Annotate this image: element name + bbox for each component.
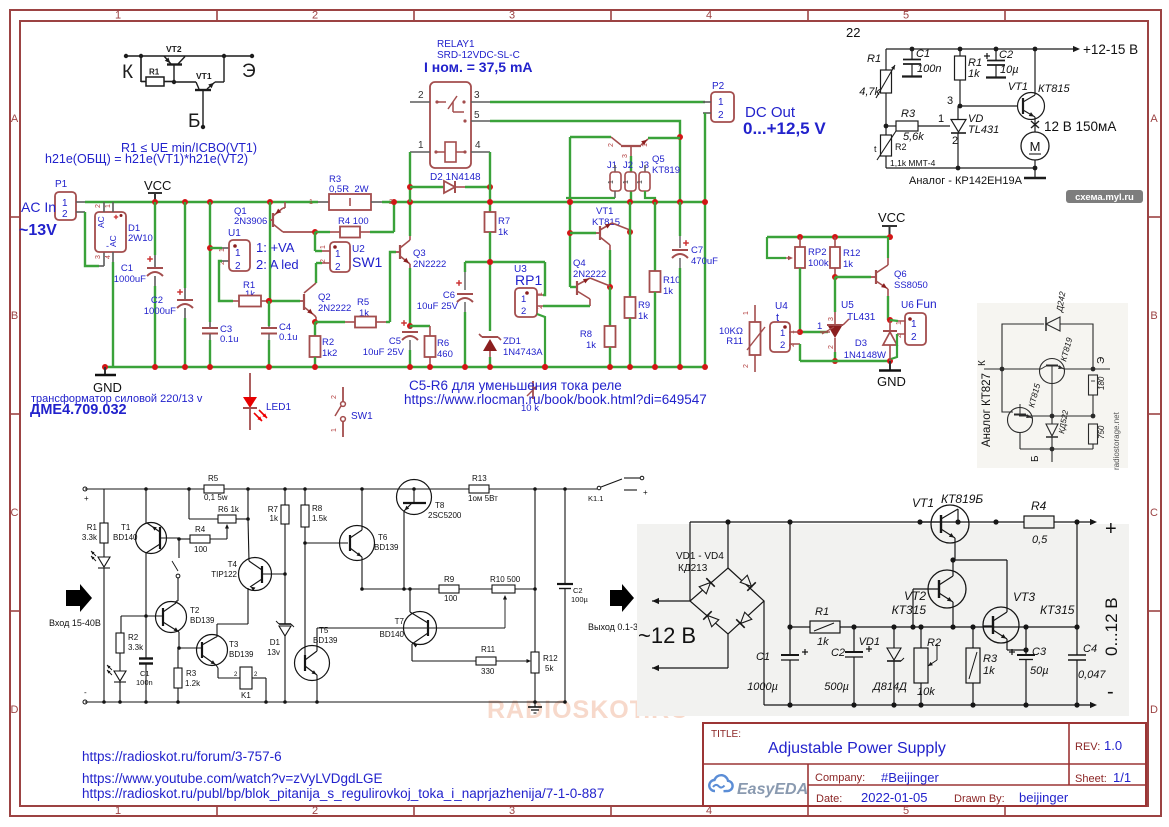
svg-text:500µ: 500µ [824,681,849,693]
svg-text:R9: R9 [444,575,455,584]
svg-text:TITLE:: TITLE: [711,729,741,740]
wire relay pin4 down / R7 column [489,152,491,187]
svg-text:22: 22 [846,25,860,40]
wire fan top rail [767,236,890,238]
svg-text:Э: Э [242,61,256,82]
svg-text:T5: T5 [319,626,329,635]
svg-text:TIP122: TIP122 [211,570,237,579]
svg-text:VT1: VT1 [912,496,934,510]
resistor R2 3.3k [120,616,122,633]
svg-text:P2: P2 [712,81,725,92]
switch K1.1 [597,486,601,490]
wire top rail PSU [689,522,691,601]
bottom-right PSU inset [637,524,1129,716]
svg-text:КТ815: КТ815 [1038,83,1070,95]
svg-text:R4: R4 [195,525,206,534]
svg-text:https://radioskot.ru/forum/3-7: https://radioskot.ru/forum/3-757-6 [82,749,282,764]
resistor R12 1k [834,237,836,247]
svg-text:5: 5 [903,10,909,22]
thermistor R2 1,1k MMT-4 [885,126,887,135]
wire bottom line [1020,448,1093,450]
svg-text:2: 2 [235,261,241,272]
svg-text:M: M [1030,139,1041,154]
svg-text:2SC5200: 2SC5200 [428,511,462,520]
svg-text:4: 4 [475,140,481,151]
svg-text:Q6: Q6 [894,269,907,280]
wire Q4 collector to RP1 pin2 [543,305,590,307]
svg-text:12 В 150мА: 12 В 150мА [1044,119,1116,134]
wire column x=210 (C3/U1) [207,199,213,205]
svg-text:1: 1 [418,140,424,151]
svg-text:100n: 100n [917,63,941,75]
wire fan gnd line [800,360,890,362]
svg-text:A: A [11,113,19,125]
svg-text:Date:: Date: [816,793,842,805]
svg-text:GND: GND [877,374,906,389]
svg-text:Аналог - КР142ЕН19А: Аналог - КР142ЕН19А [909,175,1023,187]
svg-text:750: 750 [1097,425,1106,439]
svg-text:VCC: VCC [878,210,905,225]
wire regulator top rail [886,48,1073,50]
resistor 180 [1089,375,1098,395]
svg-text:2: 2 [608,143,615,147]
svg-text:#Beijinger: #Beijinger [881,770,939,785]
wire U5 ref line [800,331,828,333]
resistor R10 1k [654,202,656,271]
svg-text:0,5: 0,5 [1032,534,1048,546]
svg-text:SS8050: SS8050 [894,280,928,291]
relay contact symbol [435,100,438,103]
wire K branch [140,56,142,82]
svg-text:Adjustable Power Supply: Adjustable Power Supply [768,740,946,757]
svg-text:2N2222: 2N2222 [318,303,351,314]
svg-text:1: 1 [780,328,785,339]
svg-text:+: + [643,488,648,497]
resistor R4 100 [179,538,190,540]
resistor R3 1.2k [177,648,179,668]
wire VT1 base stem to B [202,90,204,126]
wire R4 right up to rail [393,202,395,232]
svg-text:R1: R1 [87,523,98,532]
svg-text:2W10: 2W10 [128,233,153,244]
resistor R11 330 [412,660,476,662]
wire bottom rail PSU [763,601,765,705]
svg-text:3: 3 [509,805,515,817]
zener VD1 D814D [891,624,896,629]
ground symbol [534,702,536,707]
wire T7 base to R10 wiper [428,627,505,629]
svg-text:-: - [106,241,109,251]
svg-text:https://radioskot.ru/publ/bp/b: https://radioskot.ru/publ/bp/blok_pitani… [82,786,604,801]
svg-text:2: 2 [62,209,68,220]
svg-text:2: 2 [312,805,318,817]
svg-text:U4: U4 [775,301,788,312]
capacitor C2 500u [851,624,856,629]
svg-text:SW1: SW1 [351,411,373,422]
svg-text:1k: 1k [843,259,853,270]
svg-text:1: 1 [62,198,68,209]
svg-text:1k2: 1k2 [322,348,337,359]
svg-text:R8: R8 [312,504,323,513]
EasyEDA logo [709,775,732,791]
diode KD522 [1051,416,1053,424]
X mark [1031,121,1039,128]
switch contact [178,539,180,558]
resistor R6 1k [188,489,190,519]
svg-text:VT1: VT1 [1008,81,1028,93]
svg-text:R2: R2 [322,337,334,348]
wire VCC rail y=202 [85,201,318,203]
svg-text:3.3k: 3.3k [128,643,144,652]
svg-text:BD139: BD139 [190,616,215,625]
wire R9 line [362,588,439,590]
wire x=316 column from R4 node [314,232,316,251]
wire Q5 base down through J2 [630,147,632,156]
resistor R2 1k2 [314,322,316,336]
KT827 analog inset image [977,303,1128,468]
svg-text:C1: C1 [916,48,930,60]
svg-text:C7: C7 [691,245,703,256]
svg-text:100k: 100k [808,258,829,269]
svg-text:VT1: VT1 [596,206,613,217]
svg-text:3.3k: 3.3k [82,533,98,542]
svg-text:2: 2 [389,199,393,206]
svg-text:2: 2 [95,204,102,208]
svg-text:460: 460 [437,349,453,360]
photodiode optocoupler 2 [114,671,126,681]
svg-text:2: 2 [418,90,424,101]
capacitor C6 10uF 25V [464,262,466,272]
ground flag GND [102,364,108,370]
svg-text:схема.myl.ru: схема.myl.ru [1075,192,1134,203]
svg-text:VD1: VD1 [859,636,880,648]
transistor T2 BD139 [156,602,187,633]
svg-text:100: 100 [194,545,208,554]
svg-text:T7: T7 [395,617,405,626]
node E [1091,367,1096,372]
svg-text:2: 2 [743,364,750,368]
svg-text:REV:: REV: [1075,741,1100,753]
svg-text:1k: 1k [270,514,279,523]
wire U4 pin2 to gnd line [790,343,800,345]
watermark schema.myl.ru [1066,190,1143,203]
svg-text:R3: R3 [983,653,998,665]
svg-text:1: 1 [115,10,121,22]
connector U1 [207,245,213,251]
svg-text:2: A led: 2: A led [256,257,299,272]
svg-text:5k: 5k [545,664,554,673]
svg-text:radiostorage.net: radiostorage.net [1112,411,1121,470]
svg-text:R12: R12 [843,248,860,259]
svg-text:SW1: SW1 [352,254,383,270]
svg-text:2: 2 [780,340,785,351]
svg-text:R1: R1 [867,53,881,65]
svg-text:A: A [1150,113,1158,125]
photodiode optocoupler 1 [98,557,110,567]
resistor R10 500 [492,585,515,593]
capacitor C3 0.1u [209,322,211,327]
resistor R7 1k [284,489,286,505]
resistor R12 5k [534,489,536,589]
svg-text:C2: C2 [573,586,583,595]
wire mid line [1019,415,1093,417]
capacitor C7 470uF [679,202,681,236]
svg-text:10µ: 10µ [1000,64,1019,76]
svg-text:К: К [977,360,988,366]
svg-text:VT2: VT2 [166,44,182,54]
transistor T3 BD139 [197,635,228,666]
svg-text:1k: 1k [968,68,980,80]
svg-text:U1: U1 [228,228,241,239]
svg-text:Д814Д: Д814Д [871,681,907,693]
wire x=570 column [569,137,571,287]
wire relay pin3 to P2 pin1 [490,101,705,103]
wire T4 base to D1 column [262,573,285,575]
wire T2 emitter to T3 base [177,646,181,650]
svg-text:Sheet:: Sheet: [1075,773,1107,785]
svg-text:P1: P1 [55,179,68,190]
svg-text:50µ: 50µ [1030,665,1049,677]
ground (regulator) [1034,168,1036,178]
svg-text:+: + [84,494,89,503]
capacitor C4 0.1u [266,298,272,304]
wire Q6 collector [887,237,889,258]
transistor T6 BD139 [303,541,307,545]
wire R12 column to U5 [834,277,836,312]
shunt reg VD TL431 [957,106,959,119]
svg-text:1000µ: 1000µ [747,681,778,693]
svg-text:10uF 25V: 10uF 25V [417,301,459,312]
svg-text:U5: U5 [841,300,854,311]
wire Q5 emitter to x680 [648,137,680,139]
svg-text:T2: T2 [190,606,200,615]
svg-text:0...+12,5 V: 0...+12,5 V [743,119,826,138]
svg-text:1k: 1k [983,665,995,677]
wire relay pin1 down [409,152,411,202]
capacitor C2 1000uF [182,199,188,205]
relay coil [436,151,445,153]
svg-text:R9: R9 [638,300,650,311]
svg-text:1: 1 [623,180,630,184]
resistor R1 (sketch) [146,77,164,86]
wire top loop [1002,324,1044,369]
svg-text:B: B [1150,310,1157,322]
svg-text:VCC: VCC [144,178,171,193]
svg-text:D: D [11,704,19,716]
svg-text:1N4743A: 1N4743A [503,347,543,358]
svg-text:4: 4 [105,255,112,259]
svg-text:R11: R11 [726,336,743,347]
transistor T1 BD140 [136,523,167,554]
wire D1 pins top [103,202,105,212]
svg-text:RP1: RP1 [515,272,542,288]
wire bottom GND rail y=367 [105,366,705,368]
resistor R6 460 [410,325,430,327]
svg-text:Q2: Q2 [318,292,331,303]
wire relay pin5 line [490,121,680,202]
svg-text:Q3: Q3 [413,248,426,259]
svg-text:T8: T8 [435,501,445,510]
wire RP1 bottom to rail [537,314,545,367]
svg-text:КД213: КД213 [678,563,708,574]
svg-text:10uF 25V: 10uF 25V [363,347,405,358]
svg-text:1: 1 [642,143,649,147]
svg-text:1.0: 1.0 [1104,738,1122,753]
resistor R8 1.5k [304,489,306,505]
svg-text:1: +VA: 1: +VA [256,240,295,255]
svg-text:ZD1: ZD1 [503,336,521,347]
svg-text:R13: R13 [472,474,487,483]
wire VT1 collector down [609,250,611,287]
svg-text:Fun: Fun [916,297,937,311]
svg-text:КТ819Б: КТ819Б [941,492,983,506]
svg-text:1k: 1k [663,286,673,297]
wire P1 pin2 to D1 [85,212,99,266]
svg-text:R4 100: R4 100 [338,216,369,227]
svg-text:R12: R12 [543,654,558,663]
svg-text:J2: J2 [623,160,633,171]
wire D1 pin4 down to GND rail [112,252,114,262]
svg-text:C1: C1 [140,669,150,678]
svg-text:1: 1 [911,319,917,330]
wire Q6 emitter to D3 column [887,296,889,320]
title block [703,723,1146,806]
svg-text:КТ315: КТ315 [892,603,927,617]
zener ZD1 1N4743A [487,259,493,265]
svg-text:0.1u: 0.1u [279,332,298,343]
svg-text:T4: T4 [228,560,238,569]
capacitor C4 0,047 [1074,624,1079,629]
svg-text:AC: AC [96,216,106,228]
svg-text:BD140: BD140 [380,630,405,639]
svg-text:3: 3 [95,255,102,259]
output arrow [610,584,634,612]
capacitor C5 10uF 25V [409,326,411,329]
svg-text:T6: T6 [378,533,388,542]
svg-text:AC: AC [108,235,118,247]
svg-text:2: 2 [828,345,835,349]
svg-text:КТ315: КТ315 [1040,603,1075,617]
svg-text:C5-R6 для уменьшения тока реле: C5-R6 для уменьшения тока реле [409,378,622,393]
svg-text:K1: K1 [241,691,251,700]
svg-text:C1: C1 [121,263,133,274]
svg-text:D: D [1150,704,1158,716]
svg-text:1: 1 [331,428,338,432]
svg-text:R8: R8 [580,329,592,340]
svg-text:3: 3 [622,154,629,158]
svg-text:B: B [11,310,18,322]
svg-text:J3: J3 [639,160,649,171]
svg-text:2N3906: 2N3906 [234,216,267,227]
diode bridge D1 2W10 [95,212,126,252]
wire U6 pin1 [890,320,898,321]
capacitor C1 1000u [789,522,791,627]
wire Q5 collector line [570,136,611,138]
svg-text:R6: R6 [437,338,449,349]
LED LED1 spare [249,373,251,397]
resistor R1 1k (right) [958,47,963,52]
svg-text:C2: C2 [151,295,163,306]
svg-text:C: C [11,507,19,519]
svg-text:R10 500: R10 500 [490,575,521,584]
svg-text:1: 1 [219,248,226,252]
resistor R5 0,1 5w on rail [204,485,224,493]
resistor 750 [1089,424,1098,444]
capacitor C1 100n [910,47,915,52]
capacitor C1 100n [145,616,147,658]
svg-text:1: 1 [105,204,112,208]
svg-text:-: - [1107,681,1114,703]
svg-text:RELAY1: RELAY1 [437,39,475,50]
svg-text:+: + [1105,518,1117,540]
switch SW1 spare [342,387,344,401]
svg-text:2: 2 [335,262,341,273]
svg-text:1: 1 [320,245,327,249]
svg-text:R3: R3 [186,669,197,678]
resistor R4 0,5 [1024,516,1054,528]
zener D1 13v [284,574,286,624]
svg-text:Drawn By:: Drawn By: [954,793,1005,805]
wire RP2 wiper feed [767,237,786,258]
svg-text:-: - [84,688,87,697]
svg-text:R4: R4 [1031,499,1047,513]
input arrows [652,600,690,602]
junction dots on GND rail [542,364,548,370]
svg-text:Q4: Q4 [573,258,586,269]
svg-text:Б: Б [1030,455,1041,462]
svg-text:TL431: TL431 [968,124,999,136]
svg-text:R2: R2 [128,633,139,642]
transistor T8 2SC5200 [397,480,432,515]
svg-text:R7: R7 [498,216,510,227]
svg-text:2N2222: 2N2222 [413,259,446,270]
resistor R9 100 [439,585,459,593]
svg-text:1: 1 [115,805,121,817]
svg-text:2: 2 [952,135,958,147]
svg-text:1: 1 [743,311,750,315]
wire C6/RP1 node line [465,261,545,263]
resistor R1 1k (PSU) [790,626,810,628]
wire base line to VT1 [174,81,196,83]
connector U2 SW1 [316,250,322,252]
svg-text:C2: C2 [831,647,845,659]
svg-text:Вход 15-40В: Вход 15-40В [49,618,101,628]
svg-text:C5: C5 [389,336,401,347]
svg-text:0...12 В: 0...12 В [1102,597,1121,656]
resistor R9 1k [629,202,631,232]
svg-text:Выход 0.1-3: Выход 0.1-3 [588,622,638,632]
svg-text:R7: R7 [268,505,279,514]
svg-text:Б: Б [188,111,200,132]
svg-text:BD139: BD139 [229,650,254,659]
svg-text:I ном. = 37,5 mA: I ном. = 37,5 mA [424,59,533,75]
svg-text:Company:: Company: [815,772,865,784]
diode D242 [1045,317,1047,331]
svg-text:1: 1 [938,113,944,125]
svg-text:R1: R1 [815,606,829,618]
wire P2 pin2 column [704,113,706,367]
svg-text:R6 1k: R6 1k [218,505,240,514]
motor M [1021,132,1049,160]
svg-text:K1.1: K1.1 [588,494,603,503]
potentiometer R2 10k [918,624,923,629]
svg-text:VT2: VT2 [904,589,926,603]
svg-text:3: 3 [509,10,515,22]
relay coil K1 [216,665,218,668]
svg-text:4: 4 [706,10,712,22]
svg-text:13v: 13v [267,648,280,657]
svg-text:1: 1 [637,180,644,184]
